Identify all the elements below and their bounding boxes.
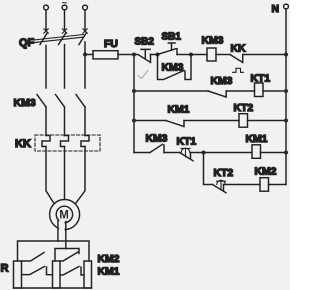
rung 3 wire	[134, 120, 166, 122]
contact KM3 rung2 (NC)	[208, 91, 226, 97]
contactor KM3 main contact pole1	[37, 95, 46, 108]
breaker QF pole 1 lever	[40, 33, 48, 45]
rotor bottom bus	[14, 287, 92, 289]
resistor R3	[84, 261, 92, 288]
resistor R2	[53, 261, 61, 288]
svg-text:N: N	[272, 4, 280, 15]
breaker QF pole 1 contact cross	[44, 29, 48, 33]
terminal L3	[83, 5, 88, 10]
thermal relay KK heater pole2	[61, 136, 69, 147]
wire L3 drop	[84, 10, 86, 30]
rotor lead left	[57, 221, 59, 242]
wire pole3 below QF	[84, 42, 86, 88]
contactor coil KM3	[207, 48, 216, 61]
svg-text:KM3: KM3	[146, 134, 168, 145]
svg-text:QF: QF	[19, 37, 35, 49]
svg-text:KM2: KM2	[98, 254, 120, 265]
terminal L2	[62, 5, 67, 10]
wire KM2 coil to rail	[269, 184, 287, 186]
thermal relay KK heater pole1	[42, 136, 50, 147]
wire pole2 below QF	[64, 45, 66, 89]
node rung2 right	[284, 89, 288, 93]
wire coil to KK contact	[216, 54, 230, 56]
wire pole1 to motor	[46, 147, 54, 204]
supply terminal N	[284, 4, 289, 9]
KT2 delay symbol	[217, 181, 226, 189]
contactor KM3 main contact pole2	[56, 95, 65, 108]
KT1 delay symbol	[181, 148, 190, 156]
thermal relay KK dashed box	[35, 135, 100, 151]
wire pole3 mid	[84, 107, 86, 136]
svg-text:KM1: KM1	[246, 134, 268, 145]
svg-text:KK: KK	[15, 138, 31, 150]
time relay coil KT2	[239, 114, 248, 128]
rotor bus upper	[18, 241, 90, 261]
auxiliary contact KM3 holding branch	[158, 55, 192, 80]
stray pencil check mark	[138, 71, 148, 79]
wire pole1 mid	[45, 107, 47, 136]
node top rung at N rail	[284, 53, 288, 57]
wire tap to fuse	[85, 54, 93, 56]
contactor KM2 rotor contact 2	[60, 252, 78, 261]
terminal L1	[44, 5, 49, 10]
time contact KT2 (NC delayed)	[213, 185, 227, 193]
contactor coil KM1	[252, 145, 261, 159]
time relay coil KT1	[255, 83, 264, 97]
node pole3 to control tap	[83, 53, 87, 57]
wire pole1 below QF	[45, 46, 47, 89]
contact KM3 rung4 (NO)	[150, 144, 164, 152]
svg-text:KT1: KT1	[177, 137, 197, 148]
wire pole2 to motor	[64, 147, 66, 200]
contactor KM1 rotor contact 2	[60, 267, 84, 276]
motor leads gap mask	[59, 220, 64, 232]
stop button SB2	[134, 49, 151, 62]
wire pole3 to motor	[75, 147, 85, 204]
node after SB1	[189, 53, 193, 57]
node rung2 left	[132, 89, 136, 93]
wire L1 drop	[45, 10, 47, 30]
fuse FU	[93, 51, 118, 59]
svg-text:KM1: KM1	[168, 105, 190, 116]
thermal contact KK heater mark	[233, 68, 244, 72]
svg-text:KM1: KM1	[98, 267, 120, 278]
motor M inner circle	[56, 206, 72, 222]
node rung3 left	[132, 119, 136, 123]
breaker QF linkage bar	[34, 35, 84, 43]
svg-text:KT2: KT2	[234, 103, 254, 114]
breaker QF pole 3 contact cross	[83, 29, 87, 33]
svg-text:M: M	[59, 210, 69, 222]
contact KM1 rung3 (NC)	[166, 121, 184, 127]
wire to KM3 coil	[191, 54, 207, 56]
start button SB1	[158, 43, 178, 55]
resistor R1	[14, 261, 22, 288]
N rail	[285, 9, 287, 185]
breaker QF pole 2 lever	[59, 33, 67, 45]
rung 5 branch wire	[204, 153, 213, 185]
control left rail	[133, 55, 135, 153]
svg-text:KM3: KM3	[211, 76, 233, 87]
node rung3 right	[284, 119, 288, 123]
svg-text:FU: FU	[104, 39, 118, 50]
contactor KM3 main contact pole3	[76, 95, 85, 108]
node rung4 branch	[202, 151, 206, 155]
svg-text:SB1: SB1	[162, 32, 182, 43]
thermal relay KK heater pole3	[81, 136, 89, 147]
node rung4 right	[284, 151, 288, 155]
svg-text:KM3: KM3	[162, 63, 184, 74]
wire KK to N rail	[243, 54, 286, 56]
rung 2 wire	[134, 90, 208, 92]
svg-text:KK: KK	[231, 44, 247, 55]
svg-text:SB2: SB2	[135, 37, 155, 48]
svg-text:KT2: KT2	[214, 168, 234, 179]
breaker QF pole 2 contact cross	[62, 29, 66, 33]
motor M outer circle	[50, 200, 80, 230]
time contact KT1 (NC delayed)	[180, 153, 194, 161]
rotor bus middle	[55, 249, 79, 262]
thermal contact KK (NC)	[230, 55, 243, 63]
node SB2-SB1	[156, 53, 160, 57]
node control tap left	[132, 53, 136, 57]
rotor lead right	[65, 222, 67, 249]
rung 4 wire left	[134, 152, 150, 154]
contactor KM2 rotor contact 1	[22, 253, 45, 262]
svg-text:KM3: KM3	[202, 36, 224, 47]
wire L2 drop	[64, 10, 66, 30]
contactor KM1 rotor contact 1	[22, 267, 53, 275]
contactor coil KM2	[260, 178, 269, 192]
svg-text:KM2: KM2	[255, 167, 277, 178]
svg-text:KM3: KM3	[14, 97, 36, 109]
breaker QF pole 3 lever	[79, 33, 87, 45]
wire pole2 mid	[64, 107, 66, 136]
svg-text:R: R	[1, 263, 9, 275]
